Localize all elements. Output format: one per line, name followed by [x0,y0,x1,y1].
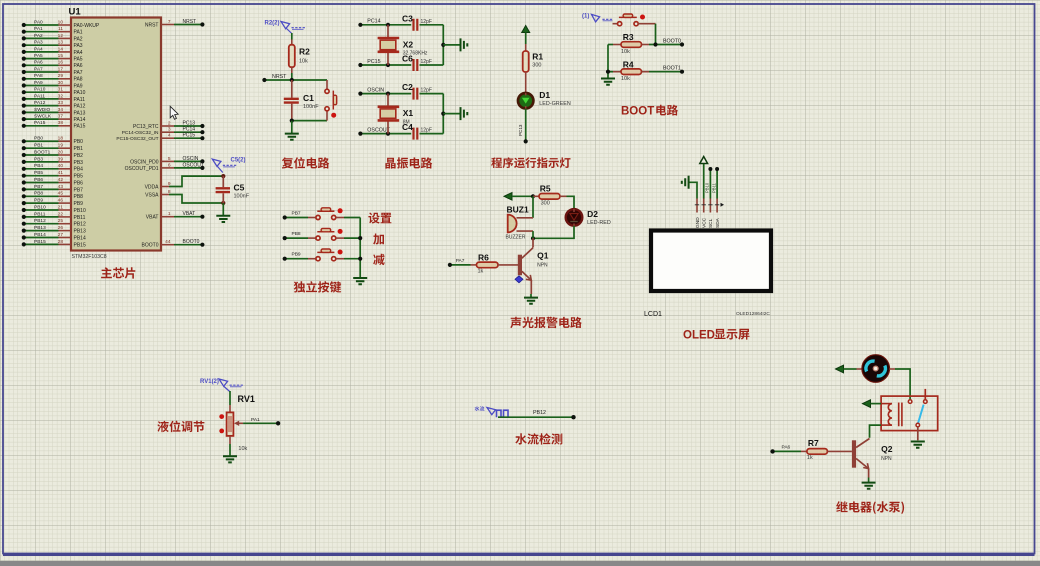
wire PB12 water flow [498,416,574,418]
wire / pin PC13_RTC (2) [161,125,174,127]
svg-text:NRST: NRST [183,19,197,25]
wire right vertical [442,94,444,134]
svg-text:PA1: PA1 [34,26,43,32]
wire / pin PB12 (25) [24,223,59,225]
label 晶振电路 [386,157,433,168]
svg-text:VDDA: VDDA [145,184,160,190]
svg-text:RV1: RV1 [238,394,255,404]
svg-text:33: 33 [58,100,64,106]
svg-text:VBAT: VBAT [183,211,196,217]
svg-text:10k: 10k [621,49,630,55]
label 液位调节 [157,421,204,433]
svg-text:300: 300 [532,63,541,69]
svg-text:PA9: PA9 [34,80,43,86]
LED D2 LED-RED [566,209,583,226]
wire OSCOUT [360,133,411,135]
wire / pin PA0-WKUP (10) [24,24,59,26]
svg-text:PB2: PB2 [74,153,84,159]
svg-text:38: 38 [58,120,64,126]
svg-text:300: 300 [541,200,550,206]
svg-text:OSCIN_PD0: OSCIN_PD0 [130,159,159,165]
svg-text:PA13: PA13 [74,110,86,116]
svg-text:100nF: 100nF [303,104,319,110]
svg-text:PA15: PA15 [74,124,86,130]
svg-text:C5: C5 [234,182,245,192]
svg-text:PB1: PB1 [34,143,43,149]
capacitor C6 12pF [414,59,418,71]
wire motor to relay [890,368,896,370]
wire left vertical + ground [607,45,609,79]
marker diamond [515,276,523,283]
svg-text:PB1: PB1 [74,146,84,152]
resistor R1 300 [525,44,527,52]
wire PC14 [360,24,411,26]
wire / pin PB10 (21) [24,209,59,211]
svg-text:PB6: PB6 [74,180,84,186]
svg-text:SWCLK: SWCLK [34,114,52,120]
capacitor C1 100nF [291,80,293,98]
svg-text:3: 3 [168,127,171,133]
svg-text:LED-GREEN: LED-GREEN [539,101,571,107]
wire / pin PA13 (34) [24,111,59,113]
resistor R2 10k [291,33,293,40]
svg-text:12: 12 [58,33,64,39]
push button PB9 [285,258,308,260]
svg-text:PB8: PB8 [34,191,43,197]
svg-text:PA0: PA0 [34,19,43,25]
svg-text:100nF: 100nF [234,194,250,200]
svg-text:X1: X1 [403,108,414,118]
ground RV1 [223,456,237,462]
power arrow R1 [522,26,530,33]
probe label R2(2) [281,22,290,29]
svg-text:PB13: PB13 [34,225,46,231]
svg-text:29: 29 [58,73,64,79]
svg-text:1k: 1k [478,269,484,275]
wire / pin PB5 (41) [24,175,59,177]
wire / pin PB0 (18) [24,140,59,142]
svg-text:PB11: PB11 [74,215,86,221]
svg-text:PB3: PB3 [74,160,84,166]
wire coil to Q2 [870,425,882,438]
svg-text:PA2: PA2 [74,36,83,42]
chip label 主芯片 [101,267,135,278]
svg-text:16: 16 [58,60,64,66]
svg-text:44: 44 [165,239,171,245]
svg-text:R6: R6 [478,253,489,263]
svg-text:PC15: PC15 [183,133,196,139]
wire / pin PA5 (15) [24,58,59,60]
svg-text:NRST: NRST [272,74,287,80]
svg-text:RV1(2): RV1(2) [200,379,219,385]
resistor R6 1k [450,264,471,266]
node NRST net [264,79,327,81]
svg-text:21: 21 [58,204,64,210]
svg-text:OSCOUT_PD1: OSCOUT_PD1 [125,166,159,172]
svg-text:40: 40 [58,163,64,169]
wire / pin PB14 (27) [24,237,59,239]
svg-text:SWDIO: SWDIO [34,107,51,113]
svg-text:1k: 1k [807,455,813,461]
svg-text:BOOT1: BOOT1 [663,66,681,72]
LED D1 LED-GREEN [518,93,533,108]
svg-text:OLED12864I2C: OLED12864I2C [736,311,770,317]
svg-text:PB12: PB12 [34,218,46,224]
wire / pin PB13 (26) [24,230,59,232]
wire / pin PB15 (28) [24,243,59,245]
svg-text:PA12: PA12 [34,100,46,106]
push button reset [326,80,328,89]
svg-text:PB4: PB4 [74,167,84,173]
svg-text:19: 19 [58,143,64,149]
svg-text:D2: D2 [587,209,598,219]
svg-text:PC14-OSC32_IN: PC14-OSC32_IN [122,130,159,136]
wire / pin PB1 (19) [24,147,59,149]
svg-text:PA3: PA3 [34,40,43,46]
svg-text:C3: C3 [402,13,413,23]
svg-text:PB4: PB4 [34,163,43,169]
label 加 [373,234,384,245]
svg-text:27: 27 [58,232,64,238]
label 水流检测 [515,433,562,444]
svg-text:LCD1: LCD1 [644,311,662,318]
wire D1 to PC13 [525,109,527,142]
svg-text:VSSA: VSSA [145,192,159,198]
svg-text:12pF: 12pF [421,19,432,25]
wire VDDA to C5 [161,186,169,188]
svg-text:BOOT: BOOT [621,106,654,118]
svg-text:PC15-OSC32_OUT: PC15-OSC32_OUT [116,136,158,142]
svg-text:GND: GND [695,217,701,228]
svg-text:C2: C2 [402,82,413,92]
svg-text:STM32F103C8: STM32F103C8 [72,254,107,260]
svg-text:32: 32 [58,93,64,99]
svg-text:R3: R3 [623,32,634,42]
op-amp U1 STM32F103C8 main chip [71,18,161,251]
svg-text:11: 11 [58,26,63,32]
resistor R5 300 [533,195,539,197]
svg-text:13: 13 [58,40,64,46]
svg-text:R5: R5 [540,184,551,194]
svg-text:PB13: PB13 [74,229,86,235]
wire / pin PB9 (46) [24,202,59,204]
svg-text:PA14: PA14 [74,117,86,123]
svg-text:PA0-WKUP: PA0-WKUP [74,23,100,29]
svg-text:PB5: PB5 [74,174,84,180]
svg-text:25: 25 [58,218,64,224]
wire PC15 [360,64,411,66]
svg-text:4: 4 [168,133,171,139]
relay contacts [908,400,912,404]
svg-text:PA7: PA7 [456,258,465,264]
svg-text:10k: 10k [621,76,630,82]
mouse cursor [170,106,178,119]
probe label 水流 [475,406,485,411]
svg-text:PB10: PB10 [705,182,710,193]
svg-text:1: 1 [168,211,171,217]
relay coil [881,403,892,405]
ground Q2 [862,483,876,489]
wire / pin PA12 (33) [24,105,59,107]
svg-text:41: 41 [58,170,64,176]
svg-text:PA1: PA1 [251,417,260,423]
svg-text:PB9: PB9 [34,198,43,204]
svg-text:6: 6 [168,162,171,168]
svg-text:PB6: PB6 [34,177,43,183]
wire / pin PA1 (11) [24,31,59,33]
svg-text:PC13: PC13 [518,124,523,136]
svg-text:U1: U1 [69,7,82,18]
wire / pin PA7 (17) [24,71,59,73]
motor pump icon [836,365,844,373]
svg-text:PC14: PC14 [367,19,380,25]
svg-text:(1): (1) [582,14,589,20]
svg-text:45: 45 [58,191,64,197]
label 独立按键 [294,281,342,293]
svg-text:42: 42 [58,177,64,183]
wire / pin PA15 (38) [24,125,59,127]
svg-text:PA6: PA6 [34,60,43,66]
wire right vertical [442,25,444,65]
wire / pin PA9 (30) [24,85,59,87]
svg-text:PB10: PB10 [74,208,86,214]
svg-text:39: 39 [58,156,64,162]
wire / pin PA8 (29) [24,78,59,80]
svg-text:X2: X2 [403,39,414,49]
svg-text:PB15: PB15 [74,242,86,248]
wire / pin OSCIN_PD0 (5) [161,160,174,162]
svg-text:10: 10 [58,19,64,25]
svg-text:PB0: PB0 [74,139,84,145]
svg-text:LED-RED: LED-RED [587,220,611,226]
svg-text:Q1: Q1 [537,250,549,260]
wire button bus [359,218,361,279]
svg-text:PA5: PA5 [74,57,83,63]
ground right [461,107,468,120]
svg-text:PB15: PB15 [34,239,46,245]
svg-text:7: 7 [168,19,171,25]
svg-text:PB14: PB14 [34,232,46,238]
capacitor C5 100nF [221,174,225,178]
svg-text:PA7: PA7 [34,66,43,72]
relay RL1 [881,396,938,431]
svg-text:PA11: PA11 [34,93,45,99]
svg-text:PB9: PB9 [74,201,84,207]
svg-text:NPN: NPN [881,456,892,462]
svg-text:15: 15 [58,53,64,59]
svg-text:OSCOUT: OSCOUT [183,162,204,168]
ground reset [291,121,293,134]
svg-text:12pF: 12pF [421,59,432,65]
svg-text:NPN: NPN [537,262,548,268]
svg-text:D1: D1 [539,90,550,100]
wire OSCIN [360,93,411,95]
svg-text:28: 28 [58,239,64,245]
svg-text:BOOT0: BOOT0 [183,239,200,245]
wire / pin VBAT (1) [161,216,174,218]
label 声光报警电路 [510,317,582,328]
svg-text:PA4: PA4 [74,50,83,56]
wire VSSA to C5 [161,194,169,196]
svg-text:PA10: PA10 [74,90,86,96]
wire button to R3 node [655,24,657,44]
ground relay [911,442,925,448]
svg-text:31: 31 [58,87,64,93]
crystal X2 32.768KHz [387,25,389,37]
svg-text:8: 8 [168,189,171,195]
svg-text:PA4: PA4 [34,46,43,52]
svg-text:PB8: PB8 [74,194,84,200]
svg-text:10k: 10k [238,446,247,452]
wire / pin BOOT0 (44) [161,244,174,246]
svg-text:PB8: PB8 [292,231,301,237]
ground Q1 [530,294,532,298]
svg-text:C5(2): C5(2) [231,158,246,164]
svg-text:17: 17 [58,66,64,72]
svg-text:30: 30 [58,80,64,86]
svg-text:SCL: SCL [708,218,714,228]
svg-text:PA8: PA8 [34,73,43,79]
capacitor C4 12pF [414,128,418,140]
svg-text:PB9: PB9 [292,252,301,258]
svg-text:PB7: PB7 [74,187,84,193]
LCD1 OLED display [651,231,771,292]
svg-text:VCC: VCC [702,217,708,228]
svg-text:BUZ1: BUZ1 [507,204,529,214]
ground under C5 [222,203,224,216]
svg-text:PB14: PB14 [74,235,86,241]
svg-text:BOOT0: BOOT0 [663,38,681,44]
svg-text:VBAT: VBAT [146,215,159,221]
label 减 [373,254,384,265]
svg-text:PA10: PA10 [34,87,46,93]
svg-text:PB12: PB12 [533,410,546,416]
svg-text:PA6: PA6 [74,63,83,69]
svg-text:R2(2): R2(2) [265,21,280,27]
wire / pin PB11 (22) [24,216,59,218]
wire D2 down and left [533,226,574,239]
svg-text:12pF: 12pF [421,88,432,94]
wire / pin PB2 (20) [24,154,59,156]
crystal X1 8M [387,94,389,106]
wire / pin PA14 (37) [24,118,59,120]
svg-text:PB5: PB5 [34,170,43,176]
svg-text:PA5: PA5 [34,53,43,59]
wire / pin PA4 (14) [24,51,59,53]
svg-text:BOOT1: BOOT1 [34,149,51,155]
svg-text:PB12: PB12 [74,222,86,228]
svg-text:R2: R2 [299,47,310,57]
wire / pin PA10 (31) [24,91,59,93]
svg-text:22: 22 [58,211,64,217]
svg-text:PA12: PA12 [74,104,86,110]
wire / pin PB7 (43) [24,188,59,190]
svg-text:OSCIN: OSCIN [367,87,384,93]
svg-text:PB7: PB7 [34,184,43,190]
svg-text:SDA: SDA [715,217,721,228]
resistor R4 10k [608,71,613,73]
probe label RV1(2) [219,379,228,386]
wire / pin PA3 (13) [24,44,59,46]
label 程序运行指示灯 [491,157,570,168]
svg-text:20: 20 [58,149,64,155]
svg-text:R4: R4 [623,59,634,69]
svg-text:R1: R1 [532,52,543,62]
potentiometer RV1 10k [229,391,231,405]
wire / pin PB3 (39) [24,161,59,163]
svg-text:12pF: 12pF [421,128,432,134]
capacitor C2 12pF [414,88,418,100]
wire / pin PB6 (42) [24,182,59,184]
svg-text:8M: 8M [403,119,410,125]
svg-text:PC15: PC15 [367,59,380,65]
svg-text:43: 43 [58,184,64,190]
svg-text:C1: C1 [303,93,314,103]
push button PB8 [285,237,308,239]
svg-text:NRST: NRST [145,22,159,28]
label 复位电路 [282,157,330,169]
svg-text:PB10: PB10 [34,204,46,210]
svg-text:PA1: PA1 [74,30,83,36]
wire / pin PB4 (40) [24,168,59,170]
capacitor C3 12pF [414,19,418,31]
svg-text:Q2: Q2 [881,444,893,454]
wire / pin PC15-OSC32_OUT (4) [161,137,174,139]
svg-text:BUZZER: BUZZER [506,235,526,241]
wire / pin PA11 (32) [24,98,59,100]
svg-text:26: 26 [58,225,64,231]
svg-text:2: 2 [168,120,171,126]
resistor R3 10k [607,44,609,46]
svg-text:5: 5 [168,156,171,162]
wire / pin PA6 (16) [24,64,59,66]
svg-text:PA15: PA15 [34,120,46,126]
svg-text:PC13_RTC: PC13_RTC [133,124,159,130]
svg-text:18: 18 [58,136,64,142]
svg-text:PB0: PB0 [34,136,43,142]
wire / pin PB8 (45) [24,195,59,197]
svg-text:PA6: PA6 [782,445,791,451]
svg-text:PC13: PC13 [183,120,196,126]
wire / pin NRST (7) [161,24,174,26]
svg-text:PA3: PA3 [74,43,83,49]
ground right [461,38,468,51]
svg-text:PA11: PA11 [74,97,86,103]
wire / pin PA2 (12) [24,37,59,39]
svg-text:9: 9 [168,181,171,187]
svg-text:OLED: OLED [683,330,715,342]
svg-text:10k: 10k [299,59,308,65]
svg-text:PB3: PB3 [34,156,43,162]
svg-text:37: 37 [58,114,64,120]
svg-text:46: 46 [58,198,64,204]
resistor R7 1k [773,450,801,452]
svg-text:PB11: PB11 [711,182,716,193]
label 继电器(水泵) [836,501,904,514]
power arrow coil [863,400,871,408]
svg-text:PA2: PA2 [34,33,43,39]
svg-text:PA7: PA7 [74,70,83,76]
svg-text:PB11: PB11 [34,211,46,217]
svg-text:14: 14 [58,46,64,52]
power arrow alarm [504,193,512,201]
svg-text:BOOT0: BOOT0 [142,243,159,249]
label 设置 [368,213,391,224]
push button PB7 [285,217,308,219]
svg-text:PA8: PA8 [74,77,83,83]
push button BOOT [613,23,618,25]
svg-text:34: 34 [58,107,64,113]
